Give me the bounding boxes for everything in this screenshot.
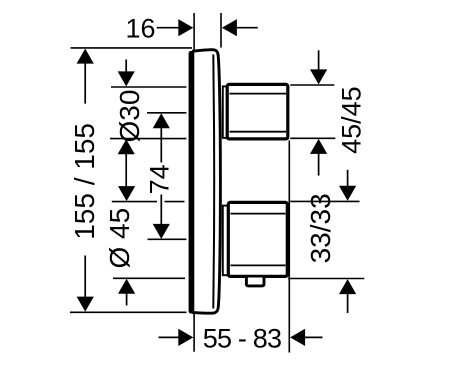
dim 16: arrows: [157, 27, 180, 29]
bottom handle neck: [223, 206, 229, 276]
svg-text:16: 16: [125, 14, 155, 44]
bottom handle face lines: [231, 213, 286, 215]
escutcheon plate back edge: [189, 51, 195, 314]
dim 45/45: arrows: [318, 50, 320, 70]
dim 55-83: extension lines: [193, 314, 195, 352]
dim Ø30: extension lines: [111, 86, 186, 88]
svg-text:74: 74: [144, 164, 174, 194]
top handle face lines: [230, 93, 287, 95]
svg-text:33/33: 33/33: [305, 193, 336, 263]
dim 45/45: extension lines: [290, 84, 334, 86]
svg-text:45/45: 45/45: [337, 86, 367, 154]
dim 16: extension lines: [193, 13, 195, 51]
dim 74: arrows: [153, 113, 170, 128]
top handle neck: [223, 86, 228, 137]
svg-text:Ø 45: Ø 45: [104, 208, 135, 269]
dim 155/155: arrows: [77, 49, 94, 64]
escutcheon plate rim crease: [212, 55, 215, 309]
svg-text:155 / 155: 155 / 155: [69, 123, 100, 240]
dim 33/33: extension lines: [290, 200, 359, 202]
top handle body: [227, 84, 288, 138]
dim 55-83: arrows: [159, 336, 180, 338]
dim Ø45: extension lines: [112, 201, 157, 203]
escutcheon plate outline: [192, 50, 220, 314]
dim 33/33: arrows: [347, 170, 349, 186]
dim 155/155: extension lines: [71, 47, 193, 49]
dim Ø45: arrows: [118, 186, 135, 201]
bottom handle body: [228, 202, 287, 276]
dim Ø30: arrows: [125, 60, 127, 74]
svg-text:Ø30: Ø30: [114, 90, 145, 143]
underside tab: [246, 278, 264, 286]
svg-text:55 - 83: 55 - 83: [203, 324, 281, 354]
dim 74: extension lines: [147, 112, 186, 114]
